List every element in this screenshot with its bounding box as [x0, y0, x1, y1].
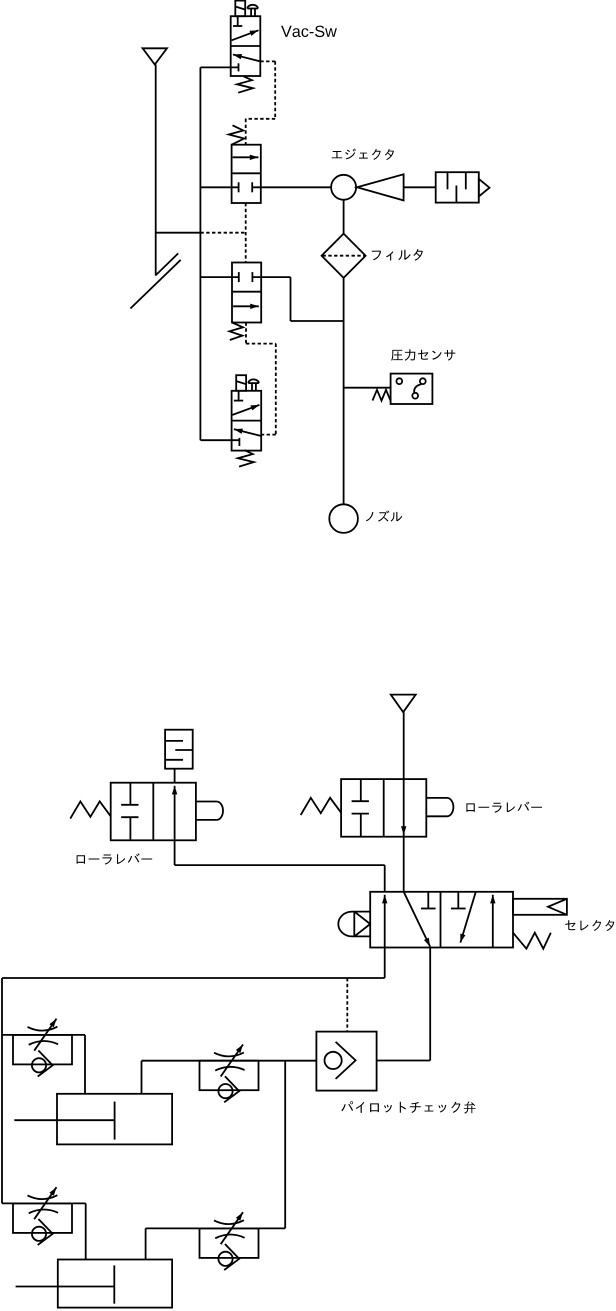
- valve V1 manual override button: [247, 5, 258, 16]
- label ローラレバー (right): [466, 802, 542, 813]
- flow control valve FC3: [13, 1187, 72, 1245]
- wire: supply trunk vertical line: [199, 67, 201, 440]
- selector right chamber up arrow: [490, 895, 495, 948]
- flow control valve FC2: [200, 1045, 259, 1103]
- cylinder 2: [16, 1260, 173, 1308]
- flow control valve FC1: [13, 1019, 72, 1077]
- valve V2 (2/2 valve) body: [232, 145, 261, 203]
- selector right chamber diagonal arrow: [460, 892, 475, 943]
- wire: trunk to valve V4 port: [200, 439, 239, 441]
- vent triangle above right roller valve: [391, 695, 416, 713]
- selector left chamber up arrow: [382, 895, 387, 948]
- silencer: [436, 172, 490, 202]
- wire: horizontal line from left vertical to supply trunk: [156, 232, 201, 234]
- flow control valve FC4: [200, 1212, 259, 1270]
- wire: A line to flow control FC1 and down to cylinder 1: [2, 1035, 85, 1094]
- valve V1 return spring: [237, 76, 253, 92]
- wire: filter down to nozzle: [343, 278, 345, 504]
- valve V3 (2/2 valve) body: [232, 263, 261, 323]
- left roller valve silencer on top: [165, 730, 193, 783]
- wire: trunk to valve V2 port: [200, 186, 238, 188]
- selector left chamber blocked port T: [421, 892, 436, 909]
- label 圧力センサ: [391, 349, 455, 361]
- right roller-lever valve body: [301, 779, 454, 837]
- wire: ejector to filter: [343, 200, 345, 234]
- label エジェクタ: [332, 149, 394, 161]
- line-break symbol (double slash): [130, 253, 180, 308]
- wire: trunk to valve V1 (Vac-Sw) port: [200, 66, 238, 68]
- pilot line (dashed) V2 bottom through junction to V3 top: [200, 203, 245, 263]
- pilot check valve: [316, 1032, 376, 1091]
- wire: A line to flow control FC3 and down to cylinder 2: [2, 1203, 86, 1259]
- valve V1 (Vac-Sw 3/2 solenoid valve) body: [231, 16, 261, 76]
- valve V2 spring: [229, 125, 244, 144]
- filter diamond: [322, 234, 366, 278]
- selector right chamber blocked port T: [451, 892, 466, 909]
- wire: selector port down-left (A line): [2, 948, 385, 1204]
- wire: branch down from FC2 line to FC4: [284, 1061, 286, 1229]
- valve V4 solenoid: [236, 375, 246, 391]
- nozzle circle: [329, 504, 358, 533]
- selector manual override (right end): [513, 899, 567, 915]
- label ノズル: [366, 511, 402, 522]
- left roller-lever valve body: [70, 783, 223, 841]
- valve V4 return spring: [238, 450, 254, 466]
- label フィルタ: [372, 249, 423, 261]
- left roller valve flow arrow (up): [172, 786, 177, 841]
- selector pilot (air pilot, left end): [338, 912, 370, 937]
- exhaust triangle (vent to atmosphere, top left): [143, 48, 167, 64]
- valve V4 manual override button: [248, 379, 258, 390]
- valve V1 solenoid: [235, 1, 245, 17]
- wire: selector port to pilot check valve (B line): [377, 948, 431, 1061]
- wire: vent line through right roller valve to selector: [403, 712, 405, 892]
- wire: flow control FC2 line to pilot check valve: [142, 1061, 317, 1094]
- wire: venturi to silencer: [404, 186, 436, 188]
- pilot line (dashed) to pilot check valve: [346, 978, 348, 1032]
- wire: branch to pressure sensor: [344, 387, 391, 389]
- wire: flow control FC4 line: [146, 1228, 286, 1259]
- wire: trunk to valve V3 port: [200, 276, 238, 278]
- wire: V2 out to ejector: [252, 186, 331, 188]
- pressure sensor spring: [373, 390, 391, 401]
- selector return spring: [513, 933, 551, 949]
- selector left chamber diagonal arrow: [404, 892, 430, 947]
- wire: left roller valve output to selector: [175, 840, 385, 892]
- label セレクタ: [565, 920, 614, 931]
- label ローラレバー (left): [77, 853, 153, 864]
- pressure sensor (pressure switch) box: [391, 374, 433, 404]
- wire: V3 out going right and down to sensor line: [252, 277, 343, 321]
- wire: vertical line from exhaust triangle down to break symbol: [155, 65, 157, 275]
- ejector circle: [331, 175, 356, 200]
- cylinder 1: [14, 1094, 172, 1145]
- right roller valve flow arrow (down): [401, 826, 406, 835]
- selector valve body: [370, 892, 513, 948]
- label パイロットチェック弁: [341, 1101, 475, 1113]
- label Vac-Sw: [281, 26, 337, 37]
- pilot line (dashed) from V1 to V2: [246, 61, 276, 144]
- pilot line (dashed) V3 bottom to V4 side: [246, 323, 276, 435]
- valve V4 (3/2 solenoid valve) body: [232, 391, 262, 451]
- ejector venturi triangle: [357, 174, 404, 200]
- valve V3 spring: [230, 323, 244, 341]
